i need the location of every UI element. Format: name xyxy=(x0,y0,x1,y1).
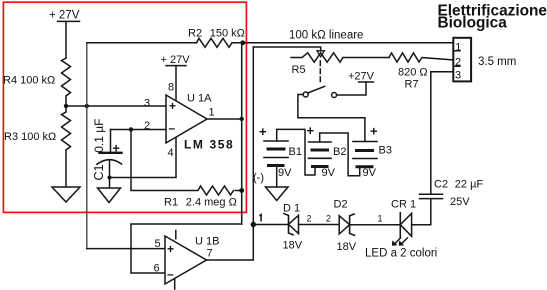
svg-text:B1: B1 xyxy=(289,146,302,158)
svg-text:R2 150 kΩ: R2 150 kΩ xyxy=(188,28,245,40)
wire: U1A pin 2 lead xyxy=(111,129,167,131)
resistor R2 xyxy=(197,38,242,47)
wire: output column xyxy=(241,43,243,224)
svg-text:2: 2 xyxy=(455,56,461,68)
svg-text:9V: 9V xyxy=(278,167,292,179)
wire: bus to U1B inverting input xyxy=(131,224,242,273)
svg-text:3.5 mm: 3.5 mm xyxy=(478,56,516,68)
wire: B1 minus to ground xyxy=(276,166,278,188)
svg-text:5: 5 xyxy=(155,238,161,250)
wire: U1A pin 4 to ground xyxy=(110,138,177,178)
battery B2 xyxy=(309,133,360,176)
svg-text:U 1A: U 1A xyxy=(187,93,212,105)
svg-text:1: 1 xyxy=(455,41,461,53)
potentiometer R5 xyxy=(291,51,389,62)
+27V supply (top left) xyxy=(58,21,80,58)
svg-text:18V: 18V xyxy=(283,240,303,252)
svg-text:4: 4 xyxy=(168,147,174,159)
wire: CR1 to C2 xyxy=(412,199,431,225)
svg-text:B3: B3 xyxy=(379,145,392,157)
svg-text:C1: C1 xyxy=(92,164,106,180)
svg-text:LED a 2 colori: LED a 2 colori xyxy=(365,248,437,260)
svg-text:+: + xyxy=(167,242,174,256)
svg-text:25V: 25V xyxy=(450,196,470,208)
svg-text:18V: 18V xyxy=(337,241,357,253)
node A (R4/R3 junction) xyxy=(64,104,68,108)
zener diode D2 xyxy=(339,214,354,235)
svg-text:R5: R5 xyxy=(292,64,306,76)
svg-text:2: 2 xyxy=(326,214,331,224)
wire: R2 top link xyxy=(87,42,197,44)
svg-text:R4 100 kΩ: R4 100 kΩ xyxy=(3,75,55,87)
wire: U1B output up to LED bus xyxy=(207,225,254,261)
wire: D2 to CR1 xyxy=(350,224,401,226)
svg-text:1: 1 xyxy=(209,107,215,119)
LED CR1 xyxy=(392,213,412,246)
battery B3 xyxy=(353,142,377,167)
svg-text:100 kΩ lineare: 100 kΩ lineare xyxy=(289,30,363,42)
svg-text:(-): (-) xyxy=(253,172,264,184)
svg-text:0.1 µF: 0.1 µF xyxy=(92,119,106,153)
op-amp U1A xyxy=(166,95,207,143)
svg-text:C2 22 µF: C2 22 µF xyxy=(434,179,483,191)
wire: bus to D1 xyxy=(253,224,288,226)
wire: feedback column from R2 down to U1B pin 5 xyxy=(86,43,88,249)
svg-text:+ 27V: + 27V xyxy=(161,54,191,66)
op-amp U1B xyxy=(165,231,207,290)
svg-text:+27V: +27V xyxy=(348,71,375,83)
svg-text:2: 2 xyxy=(307,214,312,224)
node C (pin 2 / R1 junction) xyxy=(129,127,133,131)
svg-text:LM 358: LM 358 xyxy=(184,138,234,152)
dashed wiper link to switch xyxy=(319,61,321,84)
wire: U1B pin 5 lead xyxy=(87,248,165,250)
node F (pin 1 junction) xyxy=(240,117,244,121)
svg-text:+ 27V: + 27V xyxy=(49,10,80,22)
svg-text:9V: 9V xyxy=(322,167,336,179)
wire: switch throw to +27V xyxy=(337,82,366,95)
svg-text:8: 8 xyxy=(168,82,174,94)
wire: non-inverting node to U1A pin 3 xyxy=(66,105,166,107)
ground (below R3) xyxy=(52,187,80,202)
svg-text:+: + xyxy=(370,124,378,139)
svg-text:CR 1: CR 1 xyxy=(391,199,416,211)
svg-text:1: 1 xyxy=(378,214,383,224)
capacitor C1 xyxy=(97,130,122,189)
junction tick mark xyxy=(260,215,261,221)
ground (C1 / U1A pin 4) xyxy=(98,188,121,203)
resistor R4 xyxy=(62,58,71,106)
svg-text:6: 6 xyxy=(154,263,160,275)
wire: U1A output pin 1 xyxy=(207,118,242,120)
svg-text:820 Ω: 820 Ω xyxy=(398,67,428,79)
ground (battery stack) xyxy=(266,187,289,201)
wire: output to connector pin 1 (top rail) xyxy=(243,42,453,44)
battery B1 xyxy=(264,129,315,175)
svg-text:R3 100 kΩ: R3 100 kΩ xyxy=(4,131,56,143)
connector J1 (3.5 mm jack) xyxy=(453,38,471,82)
svg-text:3: 3 xyxy=(455,69,461,81)
zener diode D1 xyxy=(284,214,299,235)
svg-text:R7: R7 xyxy=(405,79,419,91)
wire: C2 to connector pin 3 xyxy=(431,71,454,73)
resistor R1 xyxy=(131,130,242,196)
svg-text:–: – xyxy=(169,121,176,135)
svg-text:9V: 9V xyxy=(363,167,377,179)
node B (feedback tap on pin-3 wire) xyxy=(85,104,89,108)
wire: wiper link xyxy=(253,47,320,51)
svg-text:D 1: D 1 xyxy=(283,203,300,215)
svg-text:+: + xyxy=(259,124,267,139)
wire: switch pole to battery stack xyxy=(298,95,365,142)
svg-text:7: 7 xyxy=(207,248,213,260)
svg-text:Biologica: Biologica xyxy=(438,15,508,32)
svg-text:R1 2.4 meg Ω: R1 2.4 meg Ω xyxy=(164,197,237,209)
capacitor C2 xyxy=(420,72,443,199)
svg-text:–: – xyxy=(167,267,174,281)
svg-text:+: + xyxy=(169,99,176,113)
svg-text:U 1B: U 1B xyxy=(195,236,219,248)
+27V supply (switch side) xyxy=(359,81,374,83)
svg-text:D2: D2 xyxy=(334,199,348,211)
+27V supply (U1A pin 8) xyxy=(166,66,186,101)
svg-text:B2: B2 xyxy=(333,146,346,158)
resistor R3 xyxy=(62,106,71,187)
resistor R7 xyxy=(389,53,453,62)
wire: D1 to D2 xyxy=(299,224,340,226)
node E (output / R2 junction, top) xyxy=(240,40,245,45)
svg-text:+: + xyxy=(113,142,120,156)
svg-text:3: 3 xyxy=(144,98,150,110)
wire: R5 wiper column down to LED bus xyxy=(252,47,254,225)
node G (R1 junction) xyxy=(239,188,244,193)
highlight box (red outline) xyxy=(3,2,246,212)
svg-text:+: + xyxy=(307,123,315,138)
switch S1 xyxy=(303,86,336,97)
node H (bus junction) xyxy=(251,222,256,227)
node D (C1/pin4 ground junction) xyxy=(108,176,112,180)
